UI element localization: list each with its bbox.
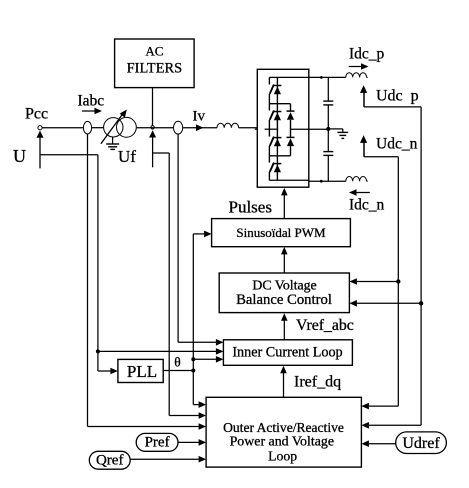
ground transformer (112, 137, 114, 144)
wire AC bus (42, 127, 83, 129)
svg-text:Power and Voltage: Power and Voltage (230, 434, 334, 449)
inductor AC (217, 123, 239, 128)
node theta dot 2 (191, 369, 195, 373)
svg-text:Udc p: Udc p (376, 88, 419, 105)
svg-text:Inner Current Loop: Inner Current Loop (232, 344, 342, 360)
node dc+ dot (320, 76, 323, 79)
wire bus segment (137, 127, 173, 129)
transformer T1 (104, 118, 123, 137)
outer loop box (206, 397, 361, 467)
arrow Iref_dq (283, 373, 285, 398)
arrow Idc_p (349, 66, 362, 68)
arrow Iabc (82, 110, 96, 112)
capacitor C1 (327, 77, 329, 101)
arrow balance to PWM (283, 254, 285, 274)
svg-text:Udc_n: Udc_n (376, 136, 418, 153)
measurement arrow U (39, 136, 41, 168)
svg-text:Iv: Iv (193, 109, 206, 125)
wire U to inner current loop (98, 350, 216, 352)
wire neutral midpoint (291, 128, 329, 130)
svg-text:DC Voltage: DC Voltage (252, 278, 316, 293)
arrow pulses to converter (283, 195, 285, 219)
svg-text:Vref_abc: Vref_abc (296, 317, 354, 334)
measurement arrow Uf (152, 136, 154, 167)
capacitor C2 (327, 129, 329, 152)
converter left column (268, 77, 270, 84)
wire U signal (40, 154, 98, 156)
wire Uf signal (153, 152, 170, 154)
arrow Idc_n (356, 192, 370, 194)
svg-text:θ: θ (174, 354, 180, 369)
wire inductor to converter (239, 127, 258, 129)
svg-text:Iref_dq: Iref_dq (294, 374, 341, 391)
junction U dot (96, 349, 100, 353)
svg-text:Pulses: Pulses (229, 197, 272, 216)
svg-text:Pcc: Pcc (25, 106, 48, 123)
svg-text:Idc_p: Idc_p (349, 45, 385, 62)
svg-text:Uf: Uf (118, 147, 136, 166)
node theta dot 1 (191, 357, 195, 361)
wire Udc_n to outer loop (369, 405, 398, 407)
IGBT switch S4 (273, 163, 281, 165)
wire bus with arrow (183, 127, 217, 129)
sinusoidal PWM box (212, 219, 351, 247)
svg-text:Sinusoïdal PWM: Sinusoïdal PWM (236, 225, 326, 240)
wire Pref to outer loop (178, 441, 199, 443)
wire Iv tap (177, 134, 179, 342)
node Udc_n dot (396, 279, 400, 283)
svg-text:Udref: Udref (402, 435, 440, 452)
converter switch column (276, 77, 278, 180)
node dc- dot (320, 180, 323, 183)
svg-text:AC: AC (145, 44, 163, 59)
wire Udc_p to outer loop (369, 424, 421, 426)
block Qref (89, 451, 130, 469)
measurement arrow Udc_p (363, 92, 365, 107)
wire Udc_n to balance control (357, 281, 398, 283)
wire bus to transformer (92, 127, 104, 129)
PLL box (118, 359, 163, 382)
IGBT switch S1 (273, 85, 281, 87)
wire Iabc tap (87, 134, 89, 427)
inductor dc- (346, 177, 367, 182)
wire U to PLL (98, 370, 111, 372)
node filter junction (151, 126, 154, 129)
clamp diode D1 (270, 103, 291, 105)
converter bottom rail (269, 179, 308, 181)
svg-text:Loop: Loop (268, 449, 297, 464)
node Udc_p dot (419, 301, 423, 305)
arrow Vref_abc (283, 320, 285, 340)
wire Udc_n (364, 156, 398, 158)
current sensor Iv (174, 121, 183, 134)
svg-text:FILTERS: FILTERS (127, 60, 182, 76)
wire Udref to outer loop (369, 443, 396, 445)
wire theta to outer loop (193, 404, 198, 406)
wire theta to PWM (192, 234, 194, 405)
block Pref (136, 433, 178, 451)
DC voltage balance control box (219, 273, 349, 313)
wire AC filters to bus (152, 88, 154, 126)
converter phase row (255, 128, 257, 130)
node midpoint dot (326, 127, 330, 131)
IGBT switch S3 (273, 137, 281, 139)
converter top rail (269, 76, 345, 78)
svg-text:Outer Active/Reactive: Outer Active/Reactive (223, 420, 344, 435)
wire Udc_p to balance control (357, 302, 421, 304)
svg-text:Pref: Pref (145, 435, 170, 451)
inner current loop box (223, 340, 352, 366)
wire PLL output theta (163, 370, 193, 372)
measurement arrow Udc_n (363, 142, 365, 157)
svg-text:Balance Control: Balance Control (236, 292, 332, 308)
svg-text:U: U (13, 146, 26, 166)
wire theta to inner loop (193, 358, 216, 360)
current sensor Iabc (83, 121, 91, 134)
block Udref (396, 432, 447, 454)
node Pcc (38, 126, 42, 130)
svg-text:PLL: PLL (127, 362, 157, 381)
converter box (257, 69, 309, 187)
svg-text:Idc_n: Idc_n (349, 197, 385, 214)
AC filters box (115, 39, 195, 88)
clamp diode D2 (287, 136, 295, 138)
wire Udc_p (364, 106, 421, 108)
IGBT switch S2 (273, 111, 281, 113)
inductor dc+ (346, 73, 367, 78)
svg-text:Qref: Qref (96, 453, 123, 469)
wire Qref to outer loop (130, 458, 199, 460)
svg-text:Iabc: Iabc (78, 93, 105, 110)
ground dc midpoint (328, 128, 343, 130)
